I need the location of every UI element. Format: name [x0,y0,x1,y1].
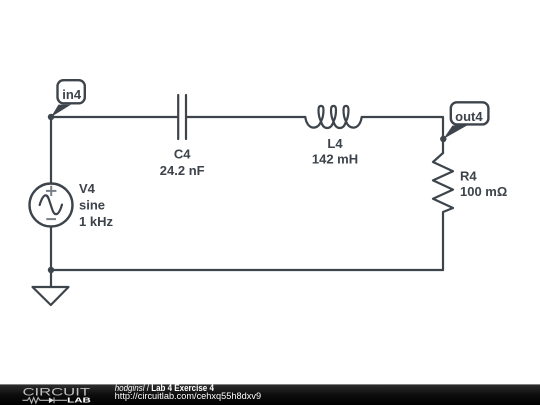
svg-text:http://circuitlab.com/cehxq55h: http://circuitlab.com/cehxq55h8dxv9 [115,391,261,401]
svg-text:LAB: LAB [67,396,91,405]
